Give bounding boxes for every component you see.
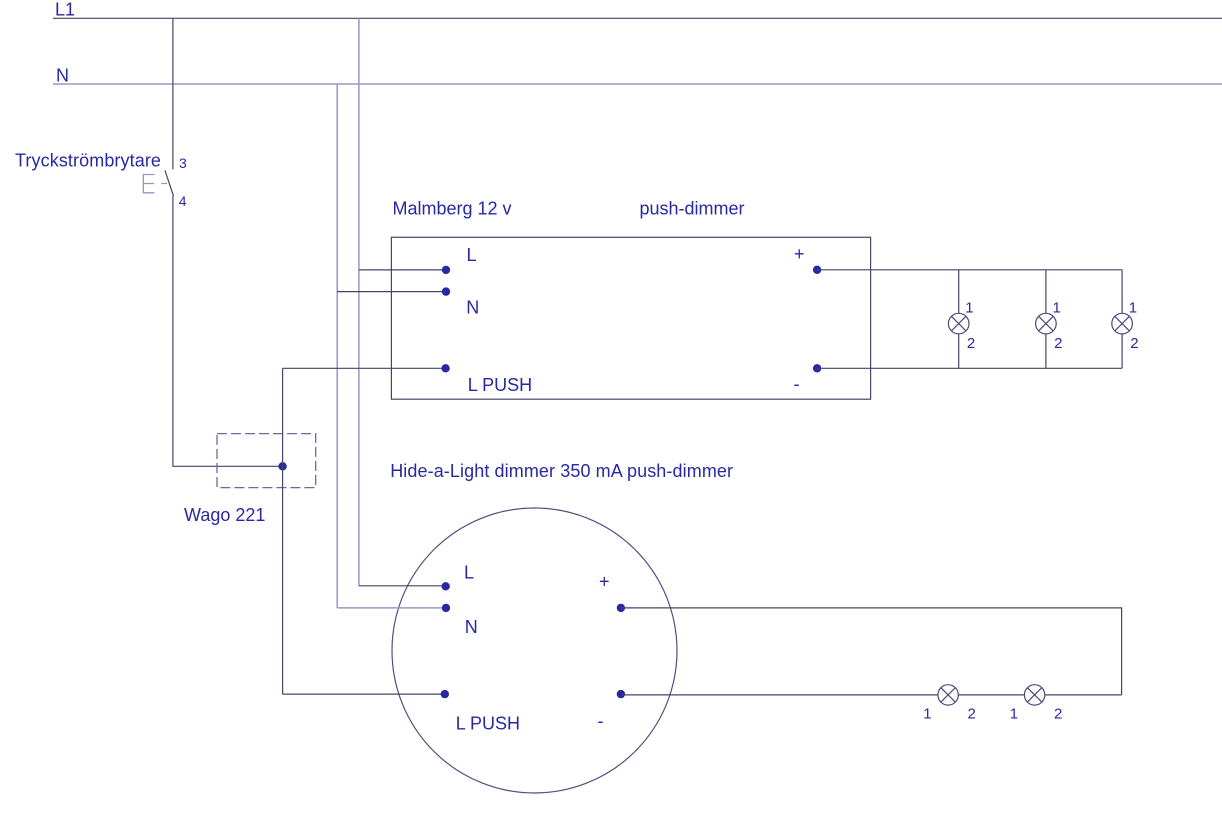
switch S1 blade (165, 170, 174, 196)
wire L PUSH stub into U2 (283, 693, 445, 695)
wire L1 bus (53, 17, 1222, 19)
svg-text:1: 1 (965, 300, 973, 317)
dimmer U2 body circle (392, 508, 677, 793)
svg-text:-: - (598, 711, 604, 731)
svg-text:N: N (466, 298, 479, 318)
svg-text:+: + (794, 244, 805, 264)
svg-text:1: 1 (923, 706, 931, 723)
wire L1 bus down to dimmers (358, 18, 360, 586)
terminal dot U1 plus (813, 266, 821, 274)
terminal dot U1 minus (813, 364, 821, 372)
svg-text:+: + (599, 572, 610, 592)
lamp E1 branch wire (958, 270, 960, 369)
svg-text:Wago 221: Wago 221 (184, 505, 265, 525)
svg-text:N: N (465, 617, 478, 637)
wire switch pin 4 to Wago junction (173, 196, 283, 466)
terminal dot U2 L (442, 582, 450, 590)
terminal dot U1 L (442, 266, 450, 274)
lamp E4 (938, 685, 958, 705)
svg-text:L PUSH: L PUSH (468, 375, 532, 395)
svg-text:Hide-a-Light dimmer 350 mA pus: Hide-a-Light dimmer 350 mA push-dimmer (390, 461, 733, 481)
lamp E3 (1112, 313, 1133, 334)
svg-text:1: 1 (1129, 300, 1137, 317)
wire L1 to switch pin 3 (172, 18, 174, 169)
wire L stub into U2 (359, 585, 446, 587)
wire N stub into U2 (337, 607, 446, 609)
terminal dot U2 N (442, 604, 450, 612)
switch S1 push actuator (143, 175, 167, 193)
wire N stub into U1 (337, 291, 446, 293)
svg-text:push-dimmer: push-dimmer (640, 199, 745, 219)
svg-text:2: 2 (1130, 335, 1138, 352)
svg-text:Malmberg 12 v: Malmberg 12 v (393, 199, 512, 219)
svg-text:2: 2 (968, 706, 976, 723)
svg-text:L: L (464, 563, 474, 583)
lamp E2 (1036, 313, 1057, 334)
wire U1 minus return lamp bank bottom (817, 367, 1122, 369)
terminal dot U2 minus (617, 690, 625, 698)
svg-text:L1: L1 (55, 0, 75, 20)
terminal dot U2 L PUSH (441, 690, 449, 698)
terminal dot U1 N (442, 287, 450, 295)
svg-text:-: - (794, 374, 800, 394)
terminal dot U1 L PUSH (441, 364, 449, 372)
wire U1 plus to lamp bank top (817, 269, 1122, 271)
terminal block Wago 221 dashed box (217, 434, 316, 488)
svg-text:L PUSH: L PUSH (456, 714, 520, 734)
wire L PUSH stub into U1 (283, 367, 446, 369)
svg-text:4: 4 (179, 193, 187, 209)
wire N bus down to dimmers (336, 84, 338, 608)
terminal dot U2 plus (617, 604, 625, 612)
dimmer U1 Malmberg box (391, 237, 870, 399)
svg-text:2: 2 (1054, 335, 1062, 352)
lamp E1 (948, 313, 969, 334)
wire U2 minus lamp string segments (621, 694, 1122, 696)
svg-text:2: 2 (1054, 706, 1062, 723)
lamp E3 branch wire (1121, 270, 1123, 369)
svg-text:2: 2 (967, 335, 975, 352)
svg-text:L: L (467, 245, 477, 265)
lamp E2 branch wire (1045, 270, 1047, 369)
wire L stub into U1 (359, 269, 446, 271)
junction dot Wago (278, 462, 286, 470)
svg-text:3: 3 (179, 155, 187, 171)
wire U2 plus to lamp string (621, 608, 1122, 695)
lamp E5 (1024, 685, 1044, 705)
svg-text:1: 1 (1010, 706, 1018, 723)
svg-text:Tryckströmbrytare: Tryckströmbrytare (15, 151, 161, 171)
svg-text:1: 1 (1053, 300, 1061, 317)
wire Wago junction to L PUSH terminals (282, 368, 284, 694)
wire N bus (53, 83, 1222, 85)
svg-text:N: N (56, 66, 69, 86)
